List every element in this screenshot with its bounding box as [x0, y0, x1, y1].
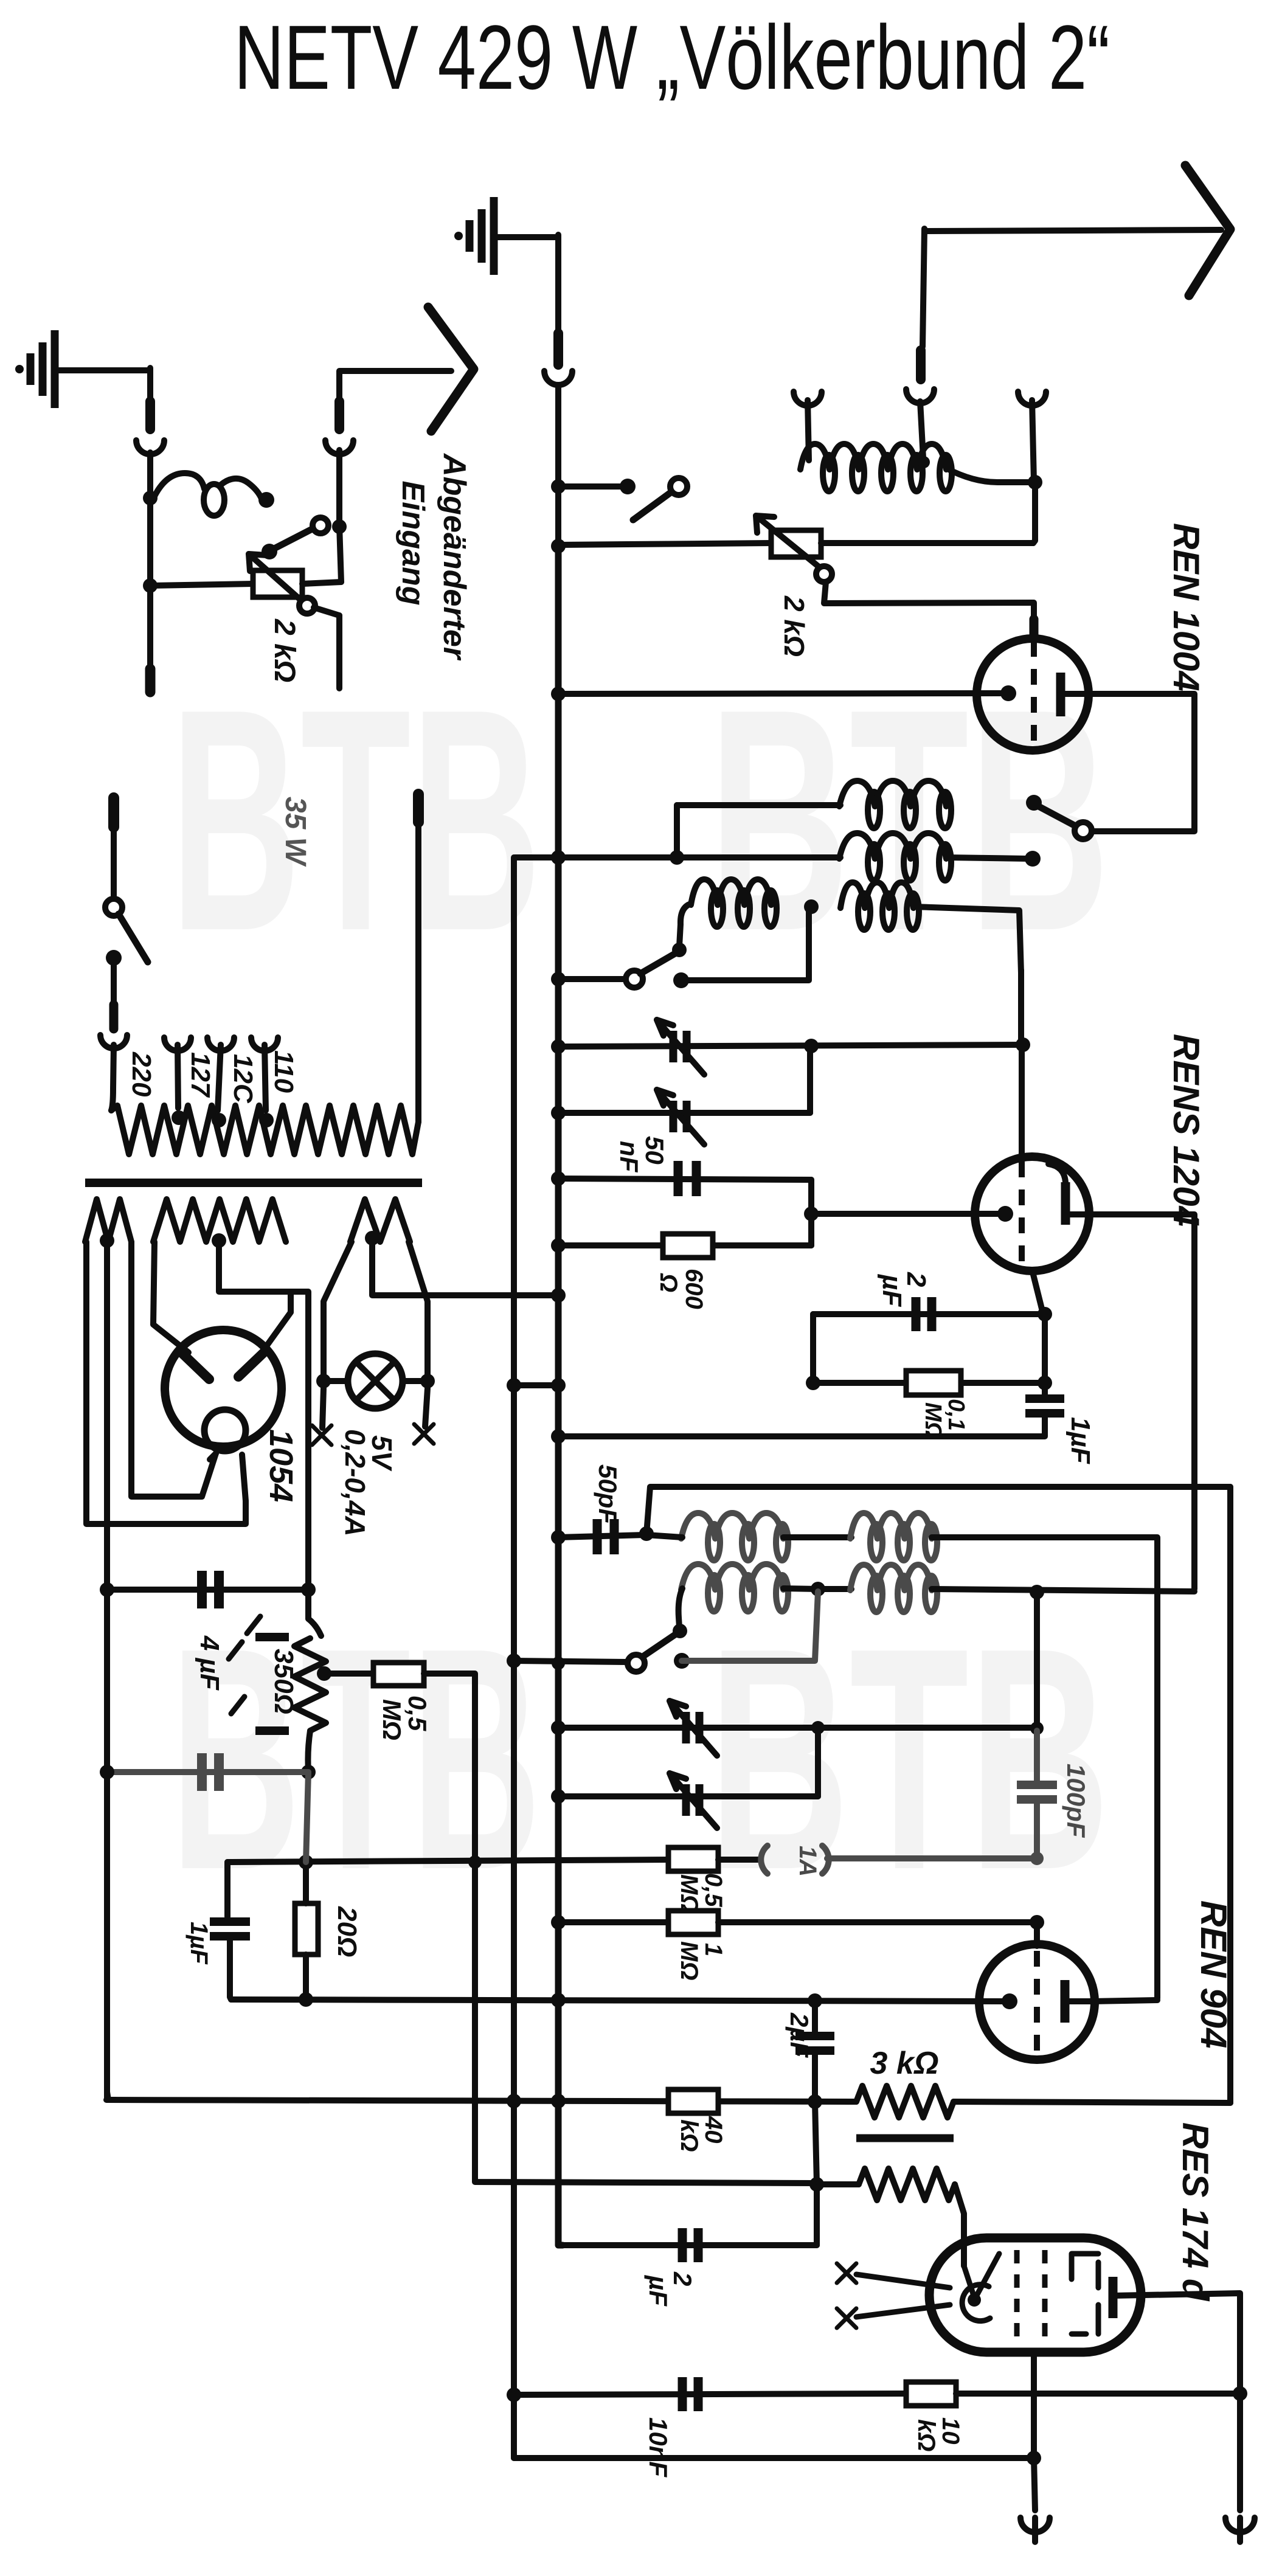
wire link A-B [674, 805, 680, 857]
capacitor 50nF [558, 1179, 811, 1180]
trimmer capacitor C3 [558, 1725, 1037, 1731]
wire t1 to t2 [807, 1046, 813, 1113]
plug connector 2 [334, 401, 344, 429]
wire link down [810, 1314, 816, 1383]
node t1 junction [804, 1039, 819, 1053]
wire pot wiper to tube top [824, 582, 1034, 623]
svg-text:µF: µF [877, 1273, 907, 1307]
wire cathode left [210, 1453, 216, 1459]
svg-text:3 kΩ: 3 kΩ [870, 2046, 939, 2081]
tube RENS 1204 [975, 1157, 1089, 1271]
node lamp right [420, 1374, 435, 1388]
wire pot to coil node [821, 540, 1033, 546]
node heater2 tap [365, 1231, 379, 1245]
wire ground right [55, 367, 150, 373]
coil L3 row B [839, 833, 946, 859]
contact dot S3 [620, 479, 636, 494]
input arrow Abgeaenderter Eingang [428, 307, 474, 431]
node bus 1M [551, 1915, 566, 1930]
svg-text:REN 904: REN 904 [1193, 1900, 1234, 2048]
svg-text:2 kΩ: 2 kΩ [778, 595, 810, 657]
capacitor 2uF (output) [560, 2242, 817, 2248]
coil L2 row A [839, 781, 946, 806]
wire row A lead [677, 802, 840, 808]
wire to junction [147, 452, 153, 585]
wire plate REN904 [1092, 2000, 1157, 2001]
node 01M left [806, 1376, 820, 1390]
svg-text:RENS 1204: RENS 1204 [1166, 1034, 1207, 1227]
wire 10k to right [956, 2391, 1240, 2397]
contact row B [1025, 851, 1041, 867]
wire throw link to IF mid [682, 1591, 818, 1661]
svg-text:4 µF: 4 µF [195, 1635, 224, 1691]
svg-text:BTB: BTB [170, 643, 541, 997]
wire cathode right [242, 1455, 246, 1501]
wire heater1 left lead [86, 1242, 246, 1524]
wire 0.5M down [424, 1674, 814, 2183]
wire IF row2 right [932, 1589, 1194, 1591]
wire input stub end [147, 586, 153, 680]
wire plate RES174d [1113, 2293, 1240, 2394]
node bus t1 [551, 1039, 566, 1054]
wire up to plug [336, 450, 342, 525]
wire corner down [147, 368, 153, 403]
HT winding [153, 1199, 286, 1242]
potentiometer 2kOhm (middle) [771, 530, 821, 557]
filament input x upper [837, 2263, 856, 2283]
svg-text:0,5: 0,5 [700, 1873, 727, 1907]
transformer primary winding [111, 1106, 418, 1154]
trimmer capacitor C4 [558, 1793, 818, 1799]
trimmer capacitor C2 [558, 1110, 810, 1116]
node secondary left [809, 2177, 824, 2192]
svg-text:0,5: 0,5 [403, 1695, 432, 1731]
svg-text:BTB: BTB [709, 1582, 1110, 1936]
svg-text:1A: 1A [794, 1846, 821, 1877]
node bus return [551, 1429, 566, 1444]
node switch S1 [332, 519, 347, 534]
choke loop coil [153, 473, 204, 499]
node bus t4 [551, 1789, 566, 1804]
wire junction up + top link [646, 1487, 1230, 1534]
wire bottom row 2 [514, 2455, 1034, 2461]
potentiometer 350 Ohm [308, 1590, 321, 1636]
wire pot tap stub [314, 608, 339, 615]
capacitor 4uF upper [107, 1587, 308, 1593]
output secondary winding [859, 2169, 955, 2200]
resistor 0,5 MOhm (wiper) [373, 1663, 424, 1686]
node bus grid row [551, 1993, 566, 2007]
wire x1340 link [815, 2102, 817, 2184]
svg-text:kΩ: kΩ [676, 2119, 702, 2152]
wire grid row [231, 2000, 1005, 2001]
wire RES cathode down [1031, 2352, 1037, 2457]
contact S6 throw [674, 1653, 690, 1669]
resistor 0,5 MOhm (fuse row) [668, 1847, 718, 1871]
svg-text:Eingang: Eingang [395, 480, 431, 605]
wire 50nF corner down [808, 1180, 814, 1214]
node input B [143, 578, 158, 593]
wire fuse row left [227, 1860, 668, 1862]
svg-text:0,2-0,4A: 0,2-0,4A [339, 1429, 371, 1536]
wire lamp stubs [322, 1388, 324, 1428]
wire to middle pot [558, 543, 771, 545]
node bus 2k row [551, 539, 566, 553]
node bus row B [551, 850, 566, 865]
wire main bus [555, 546, 562, 1663]
svg-text:10: 10 [937, 2417, 964, 2445]
node bus link [551, 1378, 566, 1393]
wire x845 vertical [511, 857, 517, 2458]
wire 3k to right vertical [954, 2102, 1230, 2103]
svg-text:0,1: 0,1 [943, 1399, 969, 1431]
wire bus top corner down [555, 235, 561, 331]
node bus t2 [551, 1106, 566, 1120]
speaker terminal cup right [1237, 2394, 1243, 2510]
wire IF row1 link [646, 1535, 682, 1537]
switch S5 row C [626, 971, 643, 988]
node HT tap [212, 1233, 226, 1248]
svg-text:110: 110 [269, 1050, 299, 1093]
node 2uF 3k [808, 2094, 822, 2109]
tube REN 1004 [977, 639, 1089, 750]
wire bus lower segment [555, 1663, 562, 2102]
node right bottom [1233, 2386, 1247, 2401]
wire IF row1 right [932, 1537, 1157, 1998]
wire heater1 centre tap down [104, 1241, 110, 1590]
node bus-grid1004 [551, 687, 566, 701]
antenna tap cup right [1018, 392, 1046, 406]
capacitor 50pF [558, 1535, 645, 1537]
svg-text:100pF: 100pF [1062, 1764, 1090, 1838]
capacitor 2uF (cathode) [813, 1311, 1042, 1317]
antenna coupling coil L1 [800, 444, 946, 469]
node choke end [258, 492, 274, 508]
wire HT tap lead [219, 1241, 291, 1351]
node row C mid [804, 899, 819, 914]
node fuse end [1030, 1852, 1044, 1865]
label 4uF [229, 1616, 260, 1659]
node t3 right [811, 1721, 825, 1734]
resistor 600 Ohm [558, 1242, 811, 1248]
node heater1 tap [100, 1233, 114, 1248]
svg-text:nF: nF [615, 1141, 643, 1173]
wire row C left lead [679, 904, 691, 946]
wire HT aux [291, 1292, 308, 1590]
wire to 2k pot [150, 584, 253, 586]
fuse 1A [761, 1846, 767, 1874]
capacitor 100pF [1034, 1731, 1040, 1785]
wire heater2 right lead [409, 1242, 428, 1376]
node x845 link [507, 1378, 521, 1393]
coil L8 IF row2 a [681, 1564, 783, 1590]
resistor 1 MOhm [558, 1919, 668, 1925]
wire heater2 tap to bus [372, 1238, 558, 1295]
wire plate lead [1089, 694, 1194, 831]
antenna tap cup left [794, 392, 822, 406]
svg-text:50: 50 [640, 1136, 669, 1165]
svg-text:REN 1004: REN 1004 [1166, 523, 1207, 691]
plug connector on bus [553, 333, 563, 365]
wire arrow corner down [923, 229, 924, 347]
resistor 3 kOhm [856, 2086, 954, 2117]
svg-text:1µF: 1µF [1065, 1417, 1095, 1464]
wire fuse to right [827, 1855, 1034, 1861]
node 4uF top right [301, 1582, 316, 1597]
node bus 50nF [551, 1171, 566, 1186]
node IF row2 mid [811, 1582, 825, 1596]
svg-text:1054: 1054 [263, 1429, 299, 1502]
svg-text:MΩ: MΩ [676, 1941, 702, 1981]
open contact of pot [299, 598, 315, 614]
svg-text:127: 127 [185, 1052, 215, 1098]
node bus 50pF [551, 1530, 566, 1545]
wire bus [555, 388, 561, 490]
node bus 600 [551, 1238, 566, 1253]
wire 3k row [106, 2100, 856, 2102]
node input A [143, 491, 158, 505]
node bus 3k [551, 2094, 566, 2108]
node bus S5 [551, 972, 566, 986]
wire corner to arrow [339, 371, 451, 403]
wire wiper to 0.5M [324, 1671, 373, 1677]
coil L4 row C1 [691, 879, 771, 905]
svg-text:35 W: 35 W [279, 797, 311, 867]
wire grid lead to bus [558, 693, 1000, 694]
svg-text:RES 174 d: RES 174 d [1175, 2122, 1216, 2302]
wire 600 corner up [808, 1214, 814, 1245]
node tap 110 [259, 1113, 274, 1127]
speaker terminal cup left [1034, 2458, 1035, 2510]
capacitor 1uF (left) [224, 1862, 230, 1917]
svg-text:MΩ: MΩ [676, 1874, 702, 1914]
node bus heater tap [551, 1288, 566, 1303]
node 4uF bottom right [301, 1765, 316, 1779]
filament input x lower [837, 2308, 856, 2328]
node x845 3k [507, 2094, 521, 2108]
svg-text:Ω: Ω [655, 1273, 682, 1292]
tap junction on coil [918, 456, 930, 468]
ground (left) [51, 330, 59, 408]
node row B junction [670, 850, 684, 865]
svg-text:40: 40 [700, 2116, 727, 2144]
node x845 bottom [507, 2387, 521, 2402]
switch S6 [673, 1624, 687, 1638]
node cath row right [1038, 1307, 1052, 1321]
node 20 bottom [299, 1992, 313, 2007]
plug connector [145, 401, 155, 429]
wire row B end [946, 857, 1028, 859]
svg-text:12C: 12C [228, 1054, 258, 1104]
switch S3 lever [670, 478, 687, 495]
wire t-row to RENS grid top [1019, 1045, 1025, 1159]
wire bus bottom corner [558, 2101, 563, 2245]
resistor 10 kOhm [906, 2382, 956, 2406]
heater winding output tubes [350, 1199, 410, 1242]
wire grid row to RENS1204 [811, 1211, 1002, 1217]
switch S1 lever [262, 544, 277, 559]
node x845 T [507, 1653, 521, 1668]
svg-text:2 kΩ: 2 kΩ [268, 618, 300, 682]
capacitor 2uF (REN904 grid) [812, 2001, 818, 2034]
wire row B [515, 854, 840, 860]
switch 35W mains [108, 798, 119, 827]
node grid row x1337 [808, 1993, 822, 2008]
wire to 20 Ohm [306, 1772, 308, 1862]
wire 35W right side [413, 794, 424, 822]
wire pot to vertical [302, 582, 341, 584]
node lamp left [316, 1374, 331, 1388]
svg-text:2µF: 2µF [785, 2012, 814, 2058]
wire throw to C mid [681, 910, 809, 980]
heater winding 1054 [85, 1199, 131, 1242]
contact S5 throw [673, 972, 689, 988]
coil L9 IF row2 b [850, 1565, 932, 1590]
wire secondary right to grid [955, 2184, 964, 2266]
svg-text:10nF: 10nF [644, 2417, 673, 2477]
coil L5 row C2 [840, 882, 913, 908]
wire left HT vertical [104, 1590, 110, 2098]
wire 350 bottom [308, 1731, 310, 1771]
node IF row2 end [1030, 1585, 1044, 1599]
wire grid top REN904 [1034, 1922, 1040, 1946]
wire to trimmer row [1018, 970, 1024, 1046]
wire vertical to input arrow [339, 525, 341, 582]
node coil-right [1028, 475, 1042, 490]
node 01M right [1038, 1376, 1052, 1390]
plug connector to antenna tap [916, 350, 926, 379]
wire bus to S3/pot row [558, 483, 623, 490]
svg-text:350Ω: 350Ω [269, 1649, 299, 1714]
resistor 40 kOhm [668, 2090, 718, 2113]
wire row C right lead [913, 907, 1021, 973]
wire heater1 right lead [131, 1242, 216, 1497]
ground (top middle) [490, 197, 498, 275]
tube 1054 rectifier [165, 1330, 282, 1447]
node 4uF bottom left [100, 1765, 114, 1779]
node bus-S3 [551, 479, 566, 494]
wire heater2 left lead [324, 1242, 352, 1376]
wire cathode RENS1204 [1032, 1270, 1042, 1311]
node tap 127 [172, 1110, 186, 1125]
svg-text:NETV 429 W „Völkerbund 2“: NETV 429 W „Völkerbund 2“ [234, 6, 1110, 108]
wire bus down [555, 486, 561, 549]
node grid junction RENS [804, 1207, 819, 1221]
wire 1uF to bus [558, 1413, 1045, 1436]
wire right vertical down [1227, 1487, 1233, 2103]
node wiper 350 [317, 1666, 331, 1681]
svg-text:220: 220 [126, 1051, 156, 1097]
capacitor 1uF [1042, 1314, 1048, 1399]
resistor 0.1 MOhm [813, 1380, 1045, 1386]
trimmer capacitor C1 [558, 1045, 1023, 1047]
tube REN 904 [979, 1944, 1095, 2060]
node 4uF top left [100, 1582, 114, 1597]
svg-text:1: 1 [700, 1943, 727, 1956]
node 50pF junction [639, 1526, 654, 1541]
wire coil right lead [946, 468, 1034, 482]
wire grid diag [964, 2266, 974, 2297]
tap cup 120 [207, 1037, 234, 1051]
svg-text:µF: µF [644, 2275, 673, 2307]
node 05M fuse row cross [468, 1855, 482, 1869]
antenna arrow (output top right) [924, 230, 1221, 231]
coil L6 IF row1 a [681, 1513, 783, 1539]
wire ground to bus [494, 234, 556, 240]
switch S4 row A [1026, 795, 1042, 811]
node bus t3b [552, 1657, 565, 1670]
node 20 top [299, 1855, 313, 1869]
wire HT left lead [153, 1242, 189, 1352]
wire IF row2 left lead [679, 1588, 682, 1627]
wire bus to S5 [558, 976, 626, 982]
capacitor 10nF [514, 2394, 906, 2395]
node bottom [1027, 2451, 1041, 2465]
tap cup 110 [251, 1037, 278, 1051]
wire t4 up link [815, 1728, 821, 1796]
wire plate RENS1204 [1086, 1214, 1194, 1589]
node trimmer row right [1016, 1037, 1030, 1052]
svg-text:1µF: 1µF [185, 1922, 212, 1965]
node grid REN904 [1030, 1915, 1044, 1930]
svg-text:Abgeänderter: Abgeänderter [437, 452, 472, 661]
wire x845 link to bus [514, 1382, 558, 1388]
svg-text:kΩ: kΩ [913, 2419, 940, 2451]
pilot lamp 5V [348, 1354, 403, 1408]
node tap 120 [212, 1113, 226, 1127]
wire bus to S6 [514, 1661, 628, 1662]
wire down to 2k pot row [1033, 482, 1035, 543]
svg-text:20Ω: 20Ω [332, 1906, 362, 1957]
wire row2 end down [1034, 1592, 1040, 1731]
transformer core [85, 1179, 422, 1187]
svg-text:MΩ: MΩ [378, 1699, 406, 1740]
tube RES 174 d [929, 2238, 1141, 2352]
tap cup 127 [164, 1037, 191, 1051]
resistor 20 Ohm [295, 1903, 318, 1955]
potentiometer 2kOhm (left) [253, 570, 302, 597]
transformer core (output) [856, 2135, 954, 2142]
node bus t3 [551, 1720, 566, 1735]
svg-text:600: 600 [681, 1269, 707, 1309]
wire to fuse [718, 1857, 759, 1863]
node t3 end [1030, 1722, 1044, 1735]
svg-text:50pF: 50pF [594, 1464, 622, 1525]
coil L7 IF row1 b [850, 1513, 932, 1539]
grid cap plug of REN1004 [1030, 619, 1039, 637]
capacitor 4uF lower [107, 1769, 308, 1775]
